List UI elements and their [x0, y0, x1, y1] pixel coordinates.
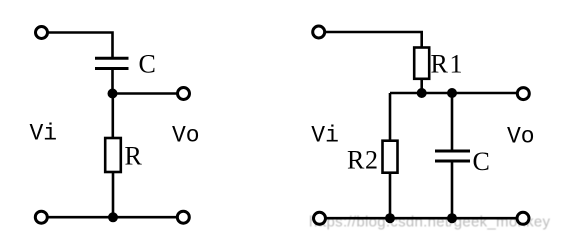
wire R2 to bottom rail — [389, 173, 392, 219]
svg-text:https://blog.csdn.net/geek_mon: https://blog.csdn.net/geek_monkey — [309, 213, 551, 230]
svg-text:Vo: Vo — [507, 124, 535, 150]
wire node down to capacitor C (right) — [451, 93, 454, 150]
capacitor C (left) plate 2 — [95, 67, 129, 70]
wire top-left to R1 (right circuit) — [326, 32, 422, 49]
wire node down to R2 — [389, 93, 392, 142]
svg-text:C: C — [139, 50, 156, 79]
svg-text:Vo: Vo — [172, 122, 200, 148]
terminal top-left input (right circuit) — [313, 26, 325, 38]
terminal bottom-right (left circuit) — [177, 211, 189, 223]
wire R1 to node — [420, 79, 423, 93]
capacitor C (right) plate 1 — [435, 150, 470, 153]
wire capacitor to node — [111, 70, 114, 94]
wire top-left to capacitor (left circuit) — [49, 33, 113, 58]
capacitor C (left) plate 1 — [95, 57, 129, 60]
svg-text:Vi: Vi — [311, 122, 339, 148]
wire node to resistor R — [112, 94, 115, 140]
terminal top-left input (left circuit) — [36, 27, 48, 39]
terminal bottom-left (left circuit) — [35, 211, 47, 223]
junction bottom under C — [447, 213, 457, 223]
svg-text:R1: R1 — [431, 50, 463, 79]
node wire horizontal (right circuit) — [390, 92, 518, 95]
terminal bottom-right (right circuit) — [517, 212, 529, 224]
bottom rail (left circuit) — [44, 216, 181, 219]
svg-text:C: C — [473, 147, 490, 176]
terminal Vo output (left circuit) — [178, 88, 190, 100]
capacitor C (right) plate 2 — [435, 160, 470, 163]
junction node (left, mid) — [108, 89, 118, 99]
junction above C — [447, 88, 457, 98]
resistor R2 — [383, 141, 398, 173]
svg-text:R: R — [125, 141, 143, 170]
terminal Vo output (right circuit) — [517, 88, 529, 100]
resistor R — [105, 138, 121, 172]
svg-text:Vi: Vi — [30, 121, 58, 147]
resistor R1 — [414, 48, 429, 79]
junction bottom (left) — [108, 212, 118, 222]
svg-text:R2: R2 — [347, 146, 378, 175]
junction under R1 — [417, 88, 427, 98]
wire node to Vo terminal — [113, 92, 181, 95]
junction bottom under R2 — [385, 213, 395, 223]
terminal bottom-left (right circuit) — [314, 212, 326, 224]
wire resistor to bottom rail — [112, 172, 115, 217]
bottom rail (right circuit) — [322, 217, 520, 220]
wire capacitor to bottom rail (right) — [451, 162, 454, 218]
